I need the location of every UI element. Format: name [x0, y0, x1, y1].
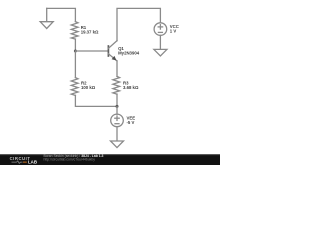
resistor R2	[71, 78, 78, 96]
wire node A to R2	[74, 51, 76, 78]
wire R1 bottom to node A	[74, 39, 76, 51]
R3 labels	[123, 81, 139, 90]
R1 labels	[81, 25, 99, 34]
Q1 labels	[118, 46, 140, 56]
wire emitter to R3	[116, 61, 118, 77]
VCC labels	[170, 24, 179, 33]
VEE labels	[127, 116, 136, 125]
svg-text:LAB: LAB	[28, 160, 37, 165]
ground (below VEE)	[111, 127, 124, 148]
transistor Q1 NPN	[108, 41, 117, 61]
R2 labels	[81, 81, 96, 90]
footer bar	[0, 154, 220, 165]
wire ground to R1	[47, 8, 76, 21]
voltage source VCC	[154, 23, 167, 36]
svg-text:My2N3904: My2N3904	[118, 51, 140, 56]
logo waveform	[12, 161, 23, 164]
svg-text:100 kΩ: 100 kΩ	[81, 85, 96, 90]
svg-text:3.68 kΩ: 3.68 kΩ	[123, 85, 139, 90]
node B junction dot	[116, 105, 119, 108]
svg-text:http://circuitlab.com/c7eur44b: http://circuitlab.com/c7eur44bukby	[44, 157, 96, 161]
wire collector up over to VCC	[117, 8, 160, 40]
wire base	[75, 50, 108, 52]
ground (top-left, R1 top net)	[40, 8, 53, 28]
svg-text:1 V: 1 V	[170, 29, 177, 34]
wire R2 bottom to bottom rail	[75, 95, 117, 106]
ground (below VCC)	[154, 35, 167, 56]
resistor R3	[113, 76, 120, 94]
voltage source VEE	[111, 114, 124, 127]
logo orange dash	[23, 161, 27, 163]
svg-text:19.37 kΩ: 19.37 kΩ	[81, 30, 99, 35]
svg-text:-5 V: -5 V	[127, 120, 135, 125]
node A junction dot	[74, 50, 77, 53]
wire R3 bottom to node B	[116, 94, 118, 106]
resistor R1	[71, 22, 78, 39]
wire node B to VEE	[116, 106, 118, 114]
